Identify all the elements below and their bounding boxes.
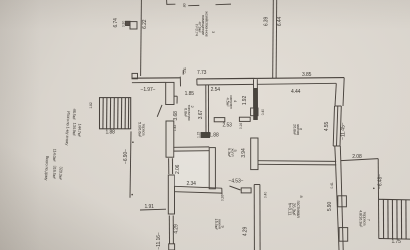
- svg-text:1.88: 1.88: [209, 133, 219, 139]
- svg-text:0.41: 0.41: [330, 182, 334, 188]
- svg-text:2.53: 2.53: [223, 123, 233, 129]
- svg-text:7.73: 7.73: [197, 70, 207, 76]
- svg-text:6.39: 6.39: [264, 17, 270, 27]
- svg-text:1.82: 1.82: [89, 102, 93, 108]
- svg-text:Всего по дому: Всего по дому: [44, 156, 50, 181]
- svg-text:4.55: 4.55: [324, 122, 330, 132]
- svg-text:4.29: 4.29: [174, 224, 180, 234]
- svg-text:9.3м²: 9.3м²: [227, 148, 232, 158]
- svg-text:6.22: 6.22: [142, 19, 148, 29]
- svg-text:26.8м²: 26.8м²: [292, 124, 297, 136]
- svg-text:0.30: 0.30: [121, 21, 125, 27]
- svg-text:−6.48−: −6.48−: [378, 174, 384, 189]
- svg-text:6.44: 6.44: [277, 17, 283, 27]
- svg-text:0.41: 0.41: [183, 67, 187, 73]
- svg-text:−4.53−: −4.53−: [229, 178, 244, 184]
- svg-text:Итого по 1-му этажу: Итого по 1-му этажу: [65, 111, 72, 146]
- svg-text:−11.45−: −11.45−: [341, 122, 347, 139]
- svg-text:4.5м²: 4.5м²: [225, 98, 230, 108]
- svg-text:−11.16−: −11.16−: [156, 232, 162, 249]
- svg-text:h=3.74: h=3.74: [194, 24, 199, 36]
- svg-text:1.75: 1.75: [392, 239, 402, 245]
- svg-text:320.3м²: 320.3м²: [58, 166, 64, 180]
- svg-text:−1.97−: −1.97−: [141, 87, 156, 93]
- svg-text:4.8/16.3м²: 4.8/16.3м²: [359, 210, 364, 228]
- svg-text:1.88: 1.88: [106, 130, 116, 136]
- svg-text:144.7м²: 144.7м²: [77, 123, 83, 137]
- svg-text:1.42: 1.42: [173, 125, 177, 131]
- svg-text:3: 3: [211, 31, 216, 34]
- svg-text:316.5м²: 316.5м²: [52, 165, 58, 179]
- svg-text:0.40: 0.40: [261, 109, 265, 115]
- svg-text:2.06: 2.06: [175, 164, 181, 174]
- svg-text:3.68: 3.68: [173, 111, 179, 121]
- svg-text:6.8м²: 6.8м²: [184, 108, 189, 118]
- svg-text:2.08: 2.08: [352, 154, 362, 160]
- svg-text:−6.90−: −6.90−: [123, 149, 129, 164]
- svg-text:0.40: 0.40: [264, 192, 268, 198]
- svg-text:1.91: 1.91: [145, 204, 155, 210]
- svg-text:5.90: 5.90: [327, 202, 333, 212]
- svg-text:0.16: 0.16: [239, 123, 243, 129]
- svg-text:1.85: 1.85: [185, 91, 195, 97]
- svg-text:4.29: 4.29: [243, 227, 249, 237]
- svg-text:3.67: 3.67: [198, 110, 204, 120]
- svg-text:.80: .80: [182, 3, 186, 8]
- svg-text:5.0/6.6м²: 5.0/6.6м²: [138, 122, 143, 138]
- svg-text:134.9м²: 134.9м²: [72, 122, 78, 136]
- svg-text:1.92: 1.92: [242, 96, 248, 106]
- svg-text:2.54: 2.54: [211, 87, 221, 93]
- svg-text:0.26: 0.26: [221, 195, 225, 201]
- svg-text:114.0м²: 114.0м²: [52, 149, 58, 163]
- svg-text:4.44: 4.44: [291, 89, 301, 95]
- svg-text:46.5м²: 46.5м²: [72, 108, 78, 120]
- svg-text:8: 8: [299, 195, 304, 198]
- svg-text:19.5м²: 19.5м²: [214, 219, 219, 231]
- svg-text:6.74: 6.74: [113, 18, 119, 28]
- svg-text:3.94: 3.94: [241, 148, 247, 158]
- svg-text:2.34: 2.34: [187, 181, 197, 187]
- svg-text:3.85: 3.85: [302, 72, 312, 78]
- svg-text:1.15: 1.15: [196, 132, 200, 138]
- svg-text:h=3.11: h=3.11: [287, 203, 292, 216]
